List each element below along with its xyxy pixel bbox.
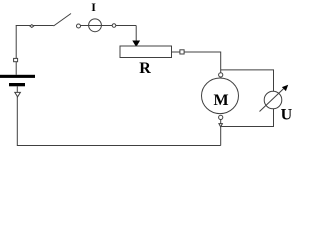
node anchor diamond on top wire <box>30 25 34 28</box>
svg-text:M: M <box>214 92 229 109</box>
node anchor square right of rheostat <box>180 50 184 54</box>
wire bottom rail <box>17 86 220 145</box>
svg-text:U: U <box>281 106 292 123</box>
wire rheostat right to square anchor <box>172 51 180 53</box>
wire rheostat to motor top <box>184 52 221 73</box>
ammeter circle (label I above) <box>89 19 102 32</box>
voltmeter U circle <box>264 91 282 109</box>
current anchor V below battery <box>15 92 21 96</box>
rheostat R box <box>120 46 172 58</box>
svg-text:R: R <box>139 60 151 77</box>
wire voltmeter branch top <box>221 70 274 91</box>
motor M circle <box>202 78 239 114</box>
rheostat R slider arrow <box>132 41 140 48</box>
wire switch terminal to ammeter <box>81 25 137 27</box>
battery negative short plate <box>9 83 25 86</box>
wire motor bottom to bottom rail <box>220 120 222 146</box>
wire down to rheostat slider <box>135 26 137 42</box>
motor bottom terminal circle <box>219 115 223 119</box>
svg-text:I: I <box>91 0 96 14</box>
switch right terminal circle <box>77 24 81 28</box>
battery positive long plate <box>0 75 35 78</box>
wire left vertical (corner to battery top plate) <box>15 26 17 75</box>
switch S blade (open) <box>54 14 72 27</box>
ammeter right terminal circle <box>112 24 116 28</box>
current anchor V below motor (junction) <box>219 124 223 127</box>
motor top terminal circle <box>219 73 223 77</box>
node anchor square on left wire <box>14 58 18 61</box>
wire top horizontal (corner to switch pivot) <box>16 25 54 27</box>
wire voltmeter bottom branch <box>221 109 273 127</box>
voltmeter needle arrowhead <box>282 85 288 91</box>
voltmeter needle <box>260 89 284 112</box>
